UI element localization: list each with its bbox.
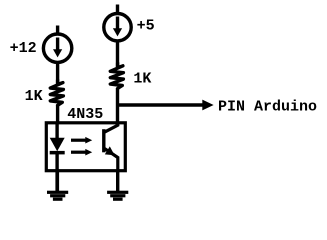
phototransistor Q1 collector bbox=[104, 122, 117, 132]
LED D1 triangle bbox=[50, 138, 65, 152]
LED D1 (4N35 input diode) anode wire bbox=[55, 123, 58, 139]
svg-text:1K: 1K bbox=[133, 71, 151, 88]
optocoupler U1 4N35 body bbox=[46, 123, 125, 171]
light arrow 1 bbox=[71, 137, 92, 144]
ground GND2 symbol bbox=[107, 191, 128, 201]
svg-text:+12: +12 bbox=[10, 40, 37, 57]
LED D1 cathode bar bbox=[50, 151, 65, 155]
wire from R1 to optocoupler anode bbox=[56, 106, 59, 124]
svg-text:PIN Arduino: PIN Arduino bbox=[218, 98, 317, 115]
ground GND1 (LED side) wire bbox=[56, 171, 59, 192]
wire from R2 through node to optocoupler collector bbox=[116, 89, 119, 124]
ground GND2 (emitter side) wire bbox=[116, 171, 119, 192]
wire from I1 to R1 bbox=[56, 62, 59, 85]
current source I2 (+5 supply) bbox=[104, 5, 131, 41]
current source I1 (+12 supply) bbox=[43, 26, 71, 63]
phototransistor Q1 emitter arrowhead bbox=[105, 146, 115, 155]
wire from I2 to R2 bbox=[116, 41, 119, 68]
arrowhead to PIN Arduino bbox=[202, 100, 213, 111]
resistor R1 bbox=[50, 80, 63, 105]
resistor R2 bbox=[110, 63, 123, 89]
LED D1 cathode wire bbox=[55, 154, 58, 192]
ground GND1 symbol bbox=[47, 191, 68, 201]
svg-text:4N35: 4N35 bbox=[67, 106, 103, 123]
svg-text:+5: +5 bbox=[137, 17, 155, 34]
svg-text:1K: 1K bbox=[25, 88, 43, 105]
phototransistor Q1 emitter bbox=[104, 148, 117, 172]
wire node to PIN Arduino bbox=[116, 103, 203, 106]
phototransistor Q1 base bar bbox=[102, 129, 105, 152]
light arrow 2 bbox=[71, 149, 92, 156]
